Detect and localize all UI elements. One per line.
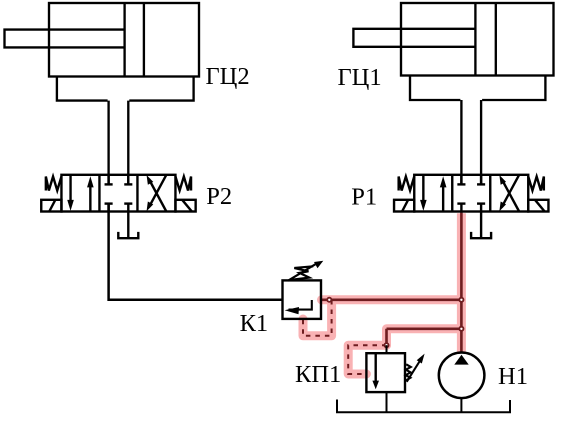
svg-text:К1: К1: [240, 310, 269, 337]
svg-text:Р1: Р1: [351, 183, 377, 210]
svg-text:Н1: Н1: [498, 363, 528, 390]
svg-text:Р2: Р2: [206, 183, 232, 210]
svg-text:ГЦ2: ГЦ2: [206, 63, 250, 90]
svg-text:ГЦ1: ГЦ1: [338, 64, 382, 91]
svg-text:КП1: КП1: [295, 361, 341, 388]
